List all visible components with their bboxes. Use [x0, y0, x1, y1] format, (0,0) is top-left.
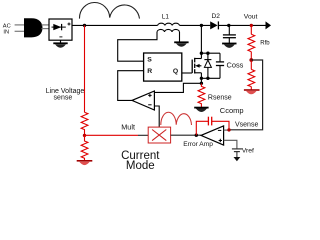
node sense tap — [200, 82, 203, 85]
wire secondary right to ground — [179, 32, 181, 42]
svg-text:Rfb: Rfb — [260, 41, 270, 47]
node rail tap for line voltage divider — [83, 24, 86, 27]
wire Vsense feedback loop — [229, 60, 263, 130]
node Vsense (red) — [227, 128, 230, 131]
resistor Rac lower — [81, 135, 88, 160]
wire parallel network bottom rail — [201, 77, 220, 79]
resistor Rsense — [198, 83, 205, 107]
svg-text:Vsense: Vsense — [235, 121, 258, 128]
multiplier X1 (red box with X) — [148, 127, 170, 143]
svg-text:Mode: Mode — [126, 160, 155, 172]
capacitor Coss — [216, 53, 244, 78]
wire comparator minus input to multiplier output — [154, 106, 159, 127]
wire plug to rectifier bottom — [42, 28, 50, 30]
svg-text:IN: IN — [3, 30, 9, 36]
wire error amp plus to Vref — [224, 140, 237, 148]
svg-text:S: S — [147, 57, 152, 64]
node diode bottom — [206, 77, 209, 80]
capacitor Ccomp (red, feedback) — [196, 117, 229, 136]
wire plug to rectifier top — [42, 24, 50, 26]
node diode top — [206, 52, 209, 55]
wire multiplier output to error amp — [171, 134, 201, 136]
wire drain riser to rail — [200, 25, 202, 58]
ground arrow under Vref — [234, 157, 241, 161]
svg-text:D2: D2 — [212, 13, 221, 20]
ground red under divider — [77, 161, 93, 165]
output arrow — [266, 21, 272, 29]
AC plug — [24, 18, 43, 37]
svg-text:Vout: Vout — [244, 13, 258, 20]
wire rail inductor to D2 — [180, 24, 211, 26]
body diode D1 — [204, 53, 211, 78]
wire comparator plus input to sense tap — [154, 83, 201, 92]
wire secondary left to flip-flop S input — [118, 32, 157, 61]
svg-text:Q: Q — [173, 68, 178, 75]
wire comparator output to flip-flop R input — [118, 71, 144, 101]
node Vsense divider tap (red) — [249, 58, 253, 62]
svg-text:L1: L1 — [162, 13, 170, 20]
wire main rail from rectifier to inductor — [72, 24, 158, 26]
ground under Rsense — [194, 108, 208, 112]
svg-text:sense: sense — [54, 95, 73, 102]
resistor R2 lower divider — [248, 60, 255, 90]
transistor Q1 (NMOS) — [192, 58, 201, 74]
wire Q output to gate — [182, 72, 192, 74]
svg-text:Mult: Mult — [121, 122, 135, 131]
rectified sine waveform (input) — [79, 2, 139, 18]
comparator U2 (points left) — [132, 91, 154, 110]
wire rail D2 to output arrow — [218, 24, 266, 26]
reference waveform (red rectified sine) — [161, 112, 192, 125]
resistor Rfb — [248, 25, 255, 60]
wire prong bottom — [15, 30, 24, 32]
svg-text:R: R — [147, 68, 152, 75]
node output cap tap — [227, 24, 230, 27]
ground under rectifier — [53, 40, 67, 48]
node source — [200, 77, 203, 80]
wire source drop — [200, 73, 202, 84]
wire prong top — [15, 24, 24, 26]
svg-text:Error Amp: Error Amp — [183, 141, 213, 148]
node multiplier input tap (red) — [83, 134, 86, 137]
ground under secondary winding — [174, 42, 188, 46]
wire error amp minus stub — [224, 129, 229, 131]
error amp U3 (points left) — [201, 126, 224, 145]
svg-text:Rsense: Rsense — [208, 95, 232, 102]
wire divider to multiplier (dark part) — [138, 134, 148, 136]
wire parallel network top rail — [201, 52, 220, 54]
diode D2 — [210, 21, 218, 29]
node error amp output — [195, 134, 198, 137]
svg-text:AC: AC — [3, 23, 11, 29]
capacitor Cout — [223, 25, 236, 43]
bridge rectifier BR1 — [49, 19, 72, 40]
inductor L1 primary winding — [158, 23, 180, 25]
node drain on rail — [200, 24, 203, 27]
wire line voltage divider drop — [84, 25, 86, 112]
ZCD secondary winding — [157, 29, 180, 31]
svg-text:Ccomp: Ccomp — [220, 106, 244, 115]
ground under Cout — [222, 44, 236, 48]
svg-text:Coss: Coss — [227, 60, 244, 69]
wire divider to multiplier (red part) — [85, 134, 139, 136]
node Vout rail tap (red) — [250, 24, 253, 27]
ground red under R2 — [244, 90, 260, 94]
flip-flop U1 — [144, 53, 182, 81]
node drain sub — [200, 52, 203, 55]
resistor Rac upper — [81, 112, 88, 135]
svg-text:Vref: Vref — [242, 148, 254, 155]
battery Vref — [232, 149, 242, 157]
